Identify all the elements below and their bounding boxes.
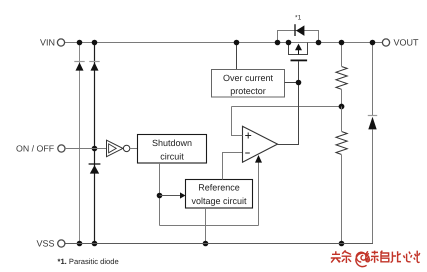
wire ESD line A VIN to VSS xyxy=(79,43,81,244)
wire VOUT column top xyxy=(372,43,374,117)
op-amp U1 triangle xyxy=(243,126,278,162)
wire VOUT column bottom xyxy=(372,129,374,243)
node dot M1 source xyxy=(286,40,292,46)
node dot line A top xyxy=(77,40,83,46)
transistor M1 gate bar xyxy=(291,60,308,62)
diode D2 cathode bar xyxy=(89,61,99,63)
svg-text:protector: protector xyxy=(230,86,266,96)
svg-text:VOUT: VOUT xyxy=(394,38,420,48)
resistor R2 zigzag xyxy=(336,132,347,155)
svg-text:ON / OFF: ON / OFF xyxy=(16,144,55,154)
resistor R2 top lead xyxy=(341,107,343,132)
wire over current tap from rail xyxy=(236,43,238,70)
parasitic diode D4 triangle xyxy=(296,25,304,36)
diode D5 triangle xyxy=(368,117,376,130)
arrow into op-amp bottom xyxy=(255,155,262,163)
svg-text:*1: *1 xyxy=(295,15,302,22)
node dot R1 rail xyxy=(339,40,345,46)
diode D1 triangle xyxy=(76,62,84,70)
transistor M1 bulk arrow xyxy=(295,44,302,51)
node dot gate line xyxy=(296,80,302,86)
wire inverter to shutdown box xyxy=(130,148,138,150)
node dot feedback tap xyxy=(339,104,345,110)
svg-text:*1. Parasitic diode: *1. Parasitic diode xyxy=(58,257,119,266)
block Shutdown circuit box xyxy=(138,135,207,164)
svg-text:Over current: Over current xyxy=(223,73,274,83)
resistor R1 bottom lead xyxy=(341,90,343,107)
node dot line B bottom xyxy=(92,241,98,247)
wire ON/OFF to inverter xyxy=(65,148,107,150)
diode D3 triangle xyxy=(90,165,99,174)
inverter U2 inner hysteresis triangle xyxy=(109,144,117,153)
svg-text:Reference: Reference xyxy=(198,183,240,193)
wire shutdown box down xyxy=(159,163,161,226)
node dot ON/OFF junction xyxy=(92,146,98,152)
wire reference bottom to VSS xyxy=(205,208,207,244)
node dot shutdown branch xyxy=(157,193,163,199)
terminal VIN xyxy=(57,39,64,46)
transistor M1 source tub xyxy=(289,43,308,55)
diode D1 cathode bar xyxy=(74,61,84,63)
block Over current protector box xyxy=(212,70,285,98)
wire shutdown loop bottom xyxy=(160,225,259,227)
svg-text:circuit: circuit xyxy=(160,151,184,161)
node dot diode stub right xyxy=(316,40,322,46)
terminal VSS xyxy=(58,240,65,247)
diode D3 cathode bar xyxy=(89,163,101,165)
terminal VOUT xyxy=(382,39,389,46)
arrow into reference box xyxy=(180,192,186,198)
node dot diode stub left xyxy=(275,40,281,46)
resistor R1 top lead xyxy=(341,43,343,67)
transistor M1 arrow stem xyxy=(298,50,300,55)
wire reference top to op-amp minus xyxy=(223,153,243,180)
block Reference voltage circuit box xyxy=(186,180,253,209)
wire VSS rail xyxy=(65,243,374,245)
node dot reference VSS xyxy=(203,241,209,247)
svg-text:Shutdown: Shutdown xyxy=(152,138,192,148)
node dot VOUT branch xyxy=(370,40,376,46)
diode D5 cathode bar xyxy=(368,115,377,117)
wire body diode bridge xyxy=(278,31,319,43)
wire feedback horizontal xyxy=(232,106,342,108)
watermark 头条 @绿色比心情 xyxy=(331,250,420,266)
wire op-amp output xyxy=(278,61,299,144)
wire loop up to op-amp xyxy=(258,161,260,226)
wire ESD line B VIN to VSS xyxy=(94,43,96,244)
parasitic diode D4 cathode bar xyxy=(294,24,296,36)
wire OCP output to gate line xyxy=(285,82,299,84)
op-amp plus sign xyxy=(245,133,251,139)
wire top rail VIN to VOUT xyxy=(65,42,383,44)
inverter U2 output bubble xyxy=(123,145,129,151)
op-amp minus sign xyxy=(245,152,250,154)
resistor R1 zigzag xyxy=(336,67,347,90)
wire op-amp plus input leg xyxy=(232,107,243,136)
node dot line B top xyxy=(92,40,98,46)
svg-text:VSS: VSS xyxy=(36,239,54,249)
svg-text:voltage circuit: voltage circuit xyxy=(191,196,247,206)
terminal ON/OFF xyxy=(58,145,65,152)
svg-text:VIN: VIN xyxy=(40,37,55,47)
node dot line A bottom xyxy=(77,241,83,247)
diode D2 triangle xyxy=(91,62,99,70)
node dot R2 VSS xyxy=(339,241,345,247)
wire shutdown to reference xyxy=(160,195,181,197)
resistor R2 bottom lead xyxy=(341,155,343,244)
inverter U2 triangle xyxy=(107,140,123,157)
node dot rail OCP xyxy=(234,40,240,46)
